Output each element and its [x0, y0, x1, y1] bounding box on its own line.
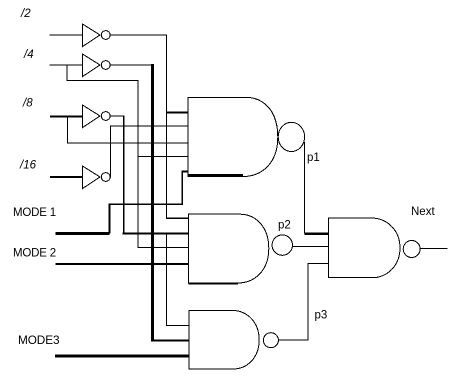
- svg-text:p3: p3: [315, 310, 328, 322]
- NAND gate G3 (output p3): [189, 310, 259, 369]
- NAND gate G2 thick bottom edge: [189, 282, 239, 284]
- wire MODE 1 riser to gate p1 bottom: [110, 172, 189, 234]
- wire Next output: [420, 247, 448, 249]
- svg-text:Next: Next: [411, 206, 435, 218]
- wire /16' from inverter up into gate p1: [110, 126, 188, 177]
- output bubble of G2: [272, 235, 292, 255]
- wire /2' continues down to gate p2: [167, 113, 189, 219]
- wire p1 from bubble down: [304, 142, 306, 234]
- svg-text:p1: p1: [307, 152, 320, 164]
- wire /8' thick into gate p2: [123, 232, 189, 234]
- inverter for /8: [83, 105, 111, 128]
- svg-text:/16: /16: [19, 160, 37, 172]
- wire MODE3 input (thick): [55, 355, 189, 358]
- inverter for /4: [83, 54, 111, 77]
- wire /4 input: [50, 64, 83, 66]
- wire /8 input: [50, 116, 83, 118]
- NAND gate G2 (output p2): [189, 214, 269, 283]
- inverter for /2: [83, 24, 111, 47]
- svg-text:MODE3: MODE3: [18, 333, 60, 347]
- wire /4 direct branch: [67, 65, 138, 156]
- NAND gate G1 thick bottom edge: [188, 174, 243, 177]
- svg-text:/4: /4: [23, 49, 34, 61]
- wire /8' branch down to gate p3: [167, 234, 190, 326]
- wire /16 input: [50, 176, 83, 178]
- svg-text:p2: p2: [278, 220, 291, 232]
- NAND gate G4 (final, output Next): [329, 218, 401, 278]
- output bubble of G1: [278, 122, 304, 151]
- wire p1 thick stub into final gate: [305, 233, 329, 235]
- svg-text:MODE 2: MODE 2: [13, 248, 56, 260]
- output bubble of G4: [403, 241, 420, 258]
- NAND gate G1 (output p1): [188, 97, 278, 176]
- wire p2 to final gate: [293, 246, 329, 248]
- svg-text:/8: /8: [22, 98, 33, 110]
- wire /4 continues down into gate p2: [138, 156, 189, 247]
- wire /4' from inverter down (thick bus): [110, 64, 151, 66]
- wire /2' thick stub into gate p1: [167, 111, 189, 113]
- wire /2 input: [50, 34, 83, 36]
- inverter for /16: [83, 166, 111, 189]
- wire MODE 2 input: [56, 263, 189, 265]
- wire /8' from inverter down: [110, 116, 124, 234]
- output bubble of G3: [263, 333, 278, 348]
- wire /4' thick stub into gate p3: [151, 339, 189, 341]
- wire /2' from inverter to bus: [110, 35, 166, 113]
- wire MODE 1 input (thick): [56, 232, 110, 235]
- wire /8 direct branch into gate p1: [67, 116, 188, 143]
- svg-text:MODE 1: MODE 1: [13, 207, 56, 219]
- svg-text:/2: /2: [20, 8, 31, 20]
- wire p3 from bubble up to final gate: [278, 264, 328, 341]
- wire /4 into gate p1: [138, 155, 188, 157]
